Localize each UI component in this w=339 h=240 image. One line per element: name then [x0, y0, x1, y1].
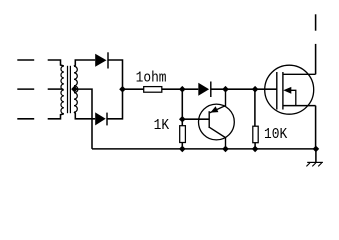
svg-text:1ohm: 1ohm	[136, 70, 167, 87]
svg-text:10K: 10K	[264, 126, 288, 143]
svg-text:1K: 1K	[154, 117, 170, 134]
